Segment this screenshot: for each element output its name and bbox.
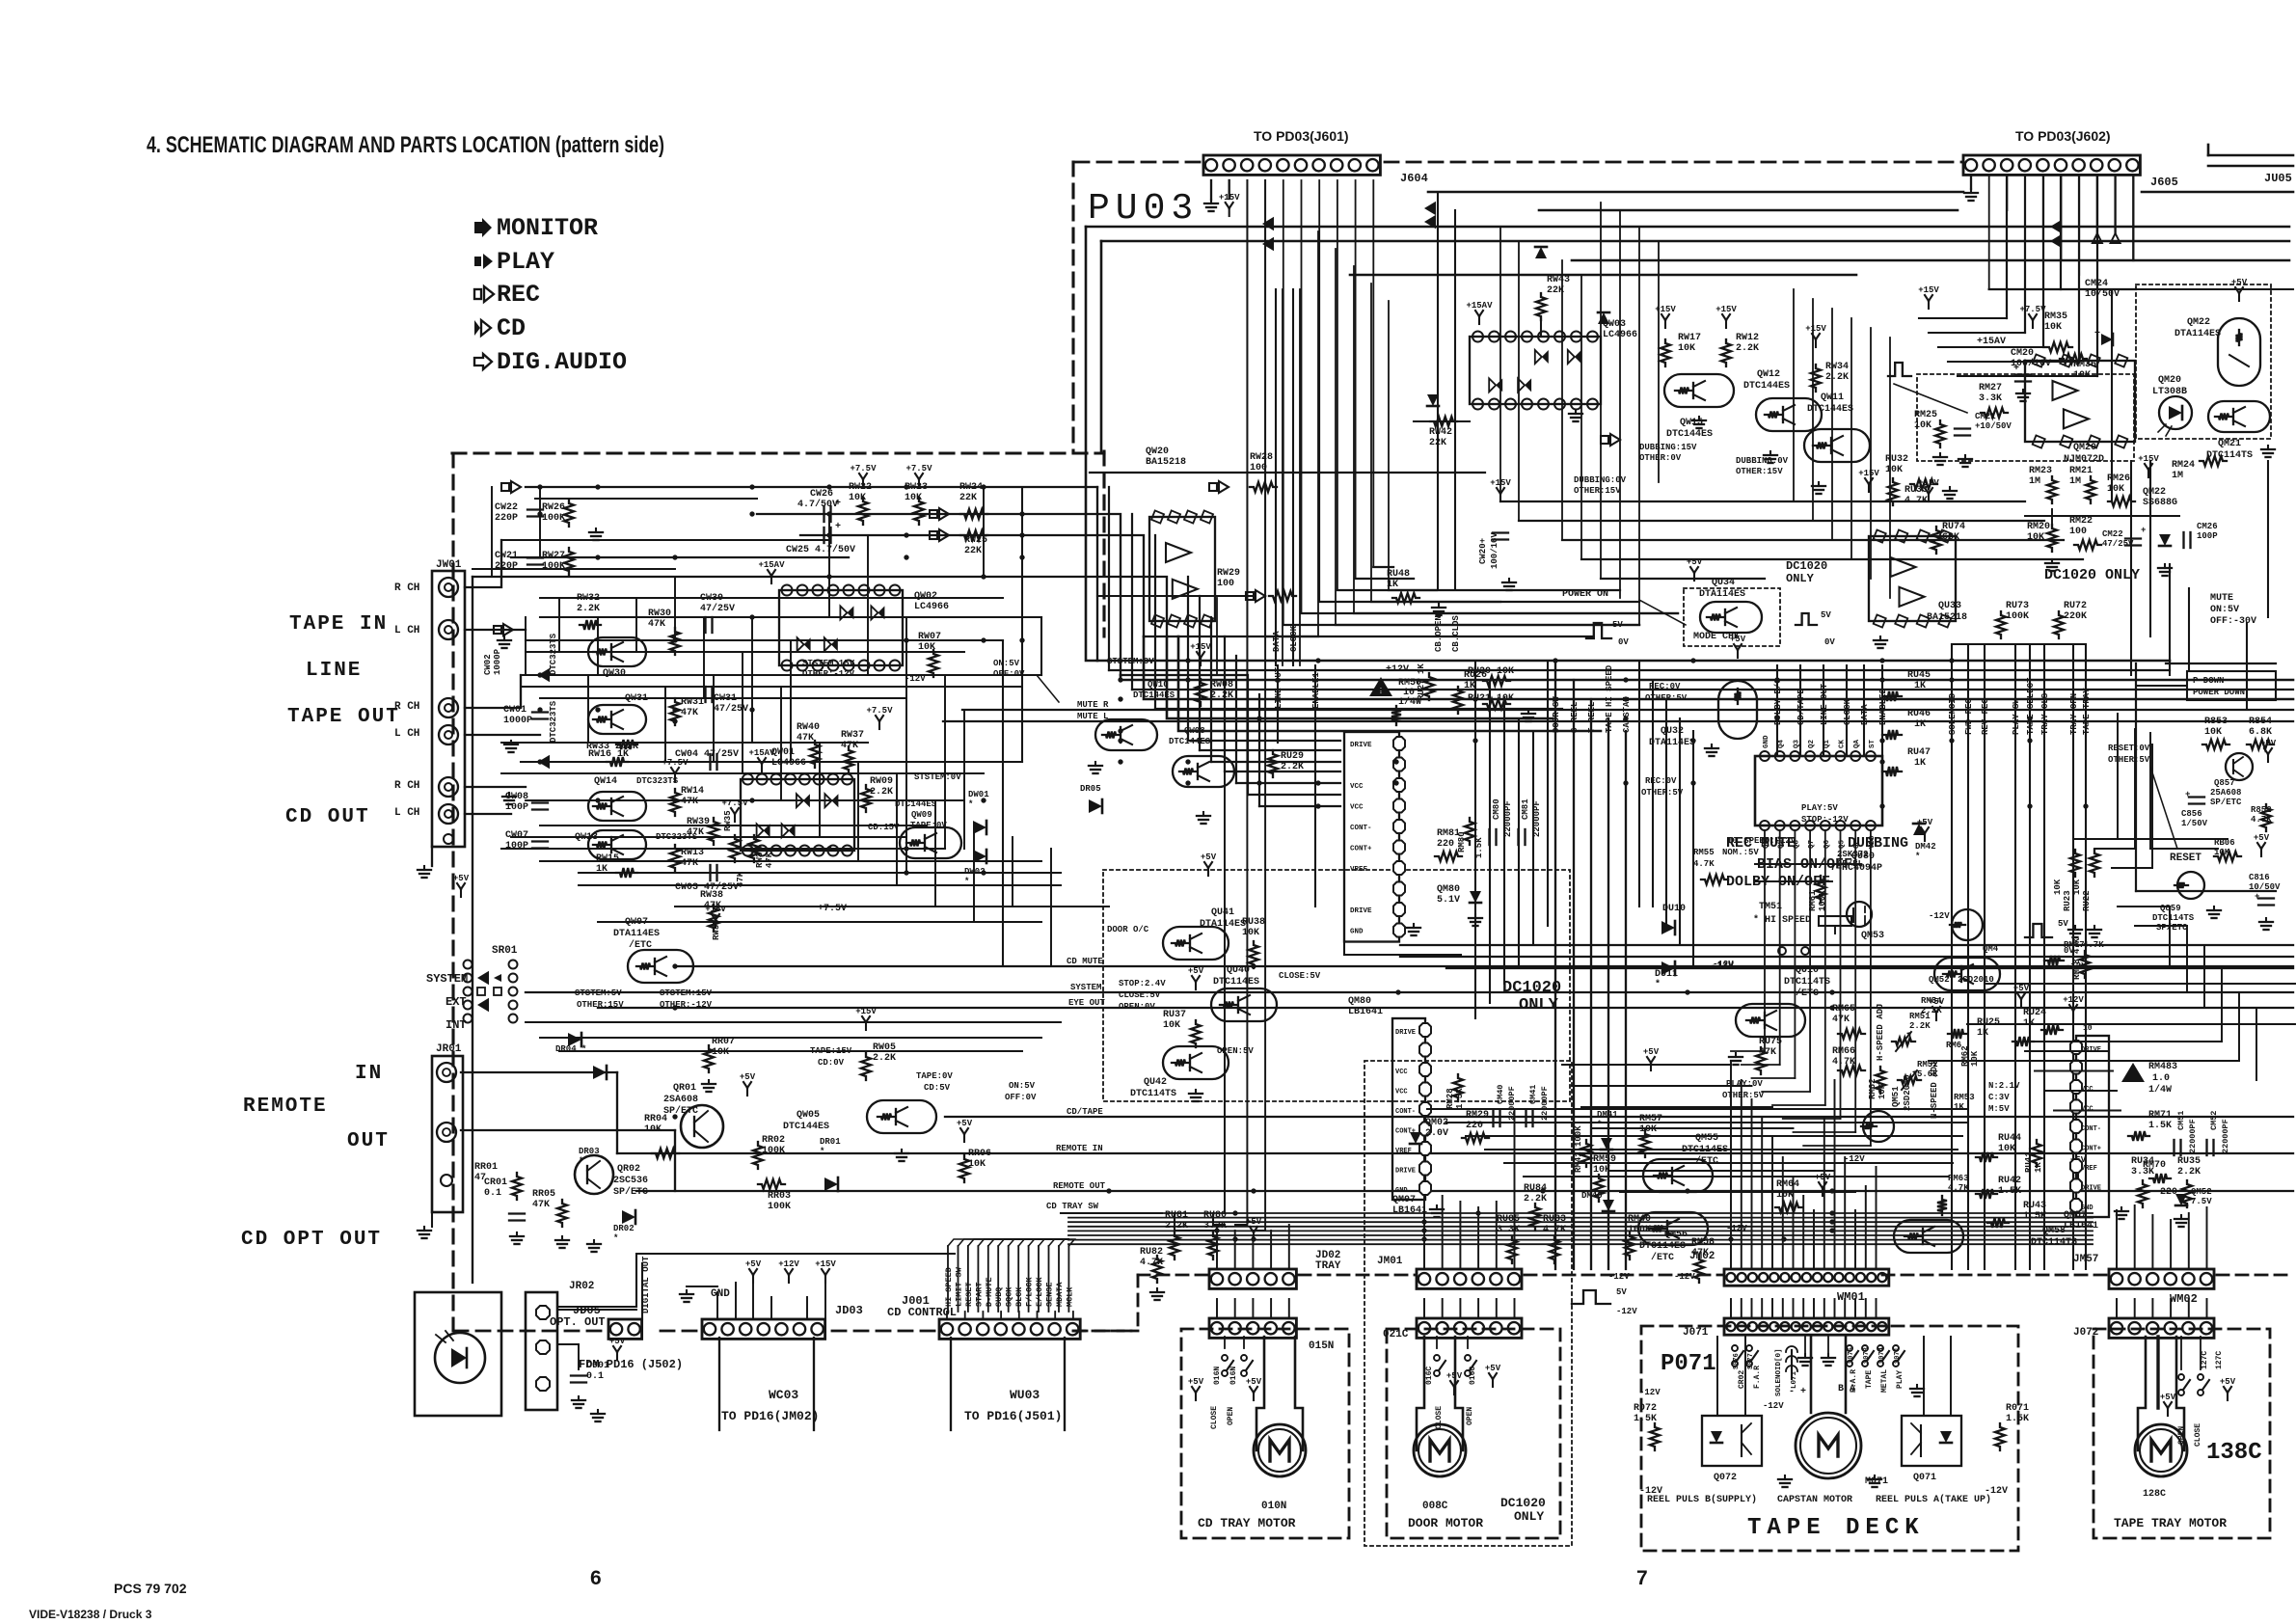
junction dot	[1118, 759, 1122, 764]
wire J071 stub	[1741, 1299, 1742, 1318]
wire bus mid corner	[1258, 694, 1260, 806]
svg-text:22000PF: 22000PF	[2221, 1119, 2230, 1153]
svg-text:TAPE TRAY MOTOR: TAPE TRAY MOTOR	[2114, 1516, 2227, 1530]
fet QM53	[1847, 902, 1872, 927]
junction dot	[1118, 677, 1122, 682]
supply +15AV qw02	[770, 576, 772, 583]
svg-text:DR04 *: DR04 *	[555, 1044, 586, 1054]
resistor RM65	[1838, 1029, 1865, 1039]
svg-text:OTHER:5V: OTHER:5V	[1722, 1091, 1765, 1100]
svg-text:QM52: QM52	[1929, 975, 1950, 985]
supply +15V qw11	[1815, 339, 1817, 347]
wire mid col vert	[1503, 699, 1505, 984]
wire vertical drop	[1216, 598, 1218, 675]
svg-text:SYSTEM: SYSTEM	[426, 972, 468, 986]
resistor R852	[2261, 804, 2271, 831]
svg-text:+15V: +15V	[2138, 454, 2159, 464]
svg-text:DTC144ES: DTC144ES	[1807, 404, 1853, 415]
capacitor CW26	[823, 506, 824, 522]
wire left extra v	[857, 762, 859, 861]
wire net DOLBY B/C vert r	[1776, 665, 1778, 756]
wire J605 deep drop	[2042, 176, 2044, 347]
wire cd-control bus h	[1068, 1234, 2093, 1236]
junction dot	[672, 1114, 677, 1119]
wire J605 pin9 drop tri	[2114, 176, 2116, 233]
wire left vseg	[963, 710, 965, 849]
svg-text:10K: 10K	[849, 493, 866, 503]
resistor RU37	[1191, 1020, 1201, 1047]
junction dot	[1393, 780, 1398, 785]
resistor RW05	[861, 1053, 871, 1080]
wire J071 stub	[1834, 1299, 1836, 1318]
svg-text:10K: 10K	[1639, 1124, 1657, 1135]
svg-text:CONT+: CONT+	[1350, 846, 1372, 853]
wire right h	[1967, 1023, 2295, 1025]
supply +7.5V d	[734, 814, 736, 822]
svg-text:1.5K: 1.5K	[2023, 1211, 2046, 1222]
wire right vert b	[2255, 1008, 2257, 1080]
svg-text:EYE OUT: EYE OUT	[1068, 998, 1105, 1008]
wire 4094 bottom drop	[1854, 830, 1856, 1132]
resistor RM80	[1465, 818, 1474, 845]
junction dot	[1019, 637, 1024, 642]
wire 4094 bottom drop	[1824, 830, 1826, 1105]
junction dot	[672, 963, 677, 968]
svg-text:+15V: +15V	[815, 1259, 836, 1269]
pin 4094 bot 6	[1850, 821, 1860, 830]
svg-text:QM22: QM22	[2143, 487, 2166, 498]
svg-text:QM20: QM20	[2158, 375, 2181, 386]
supply +15V qw10	[1200, 658, 1202, 665]
ground qm21	[2267, 446, 2269, 449]
wire vertical mid	[1850, 318, 1852, 559]
wire J605 turn	[1919, 317, 2007, 319]
wire WM01 riser	[1761, 1119, 1763, 1269]
svg-text:+5V: +5V	[1246, 1377, 1262, 1387]
wire remote v700	[674, 1130, 676, 1191]
wire J072 stub	[2206, 1299, 2208, 1318]
svg-text:CW02: CW02	[483, 654, 493, 675]
svg-text:DM40: DM40	[1581, 1191, 1603, 1201]
dashed bottom chain b	[1299, 1274, 1417, 1277]
svg-text:+: +	[2013, 364, 2019, 374]
arrow mark a	[540, 670, 549, 681]
transistor QM56	[1638, 1212, 1708, 1245]
resistor RW31	[670, 698, 680, 725]
wire J071 stub	[1844, 1299, 1846, 1318]
led QM20 LT308B	[2159, 396, 2192, 429]
dashed bottom chain d	[1882, 1274, 2109, 1277]
svg-text:REV REC: REV REC	[1981, 698, 1990, 735]
IC QM80 LB1641	[1344, 732, 1399, 942]
svg-text:+5V: +5V	[2220, 1377, 2236, 1387]
svg-text:-12V: -12V	[1726, 1224, 1747, 1233]
svg-text:WU03: WU03	[1010, 1388, 1040, 1402]
svg-text:R853: R853	[2204, 717, 2228, 727]
junction dot	[904, 484, 908, 489]
wire J072 stub	[2188, 1299, 2190, 1318]
wire left extra v	[934, 800, 936, 907]
wire left extra h	[511, 836, 906, 838]
wire WM01 riser	[1865, 1186, 1867, 1269]
resistor RR03	[758, 1179, 785, 1189]
supply +5V rm63	[2020, 999, 2022, 1007]
ground qw12	[1769, 451, 1771, 455]
svg-text:+5V: +5V	[1485, 1364, 1501, 1373]
junction dot	[1553, 696, 1557, 701]
svg-text:1K: 1K	[1914, 719, 1926, 730]
wire WM01 riser	[1730, 1061, 1732, 1269]
svg-text:QM53: QM53	[1861, 931, 1884, 941]
resistor RU72	[2054, 611, 2064, 638]
svg-text:10K: 10K	[2044, 322, 2062, 333]
wire JM01 riser	[1477, 1207, 1479, 1269]
transistor QU32v	[1718, 681, 1757, 739]
junction dot	[1781, 1236, 1786, 1241]
pin 4094 bot 2	[1790, 821, 1799, 830]
pin JR02	[536, 1306, 550, 1319]
wire qm57 feed	[2054, 1110, 2120, 1112]
svg-text:-12V: -12V	[1639, 1388, 1661, 1397]
junction dot	[1623, 780, 1628, 785]
capacitor CW21	[527, 556, 543, 558]
wire deck gnd stub	[1804, 1337, 1806, 1354]
svg-text:2.2K: 2.2K	[1524, 1194, 1547, 1204]
supply +5V ru34	[2077, 1171, 2079, 1178]
wire bus mid extra	[1200, 749, 1340, 751]
wire J604 pin9 drop	[1355, 180, 1357, 579]
wire net CLOCK vertical	[1292, 289, 1294, 665]
wire net LINE OUT vert r	[1823, 665, 1824, 756]
svg-text:*: *	[820, 1147, 824, 1156]
wire WM01 riser	[1782, 1157, 1784, 1269]
junction dot	[981, 484, 986, 489]
svg-text:-12V: -12V	[1616, 1307, 1637, 1316]
junction dot	[1251, 963, 1256, 968]
svg-text:1.0: 1.0	[2152, 1073, 2170, 1084]
svg-text:1K: 1K	[2034, 1162, 2043, 1173]
resistor RU24	[2041, 1025, 2063, 1035]
svg-text:10K: 10K	[2053, 879, 2063, 895]
svg-text:100K: 100K	[2006, 611, 2029, 622]
svg-text:OPEN: OPEN	[2177, 1426, 2186, 1445]
wire mid col vert b	[1679, 718, 1681, 945]
junction dot	[1879, 738, 1884, 743]
svg-text:QW30: QW30	[603, 668, 626, 679]
junction dot	[537, 707, 542, 712]
resistor RU85	[1507, 1236, 1517, 1263]
svg-text:CONT-: CONT-	[2081, 1125, 2101, 1133]
wire J605 deep drop	[2078, 176, 2080, 362]
junction dot	[2027, 716, 2032, 720]
svg-text:CM51: CM51	[2176, 1111, 2186, 1130]
svg-text:RR06: RR06	[968, 1149, 991, 1159]
opto-isolator Q071	[1902, 1416, 1961, 1466]
svg-text:J071: J071	[1683, 1327, 1709, 1339]
wire cd-control bend	[959, 1239, 1069, 1246]
waveform qm20	[1888, 363, 1911, 376]
svg-text:4. SCHEMATIC DIAGRAM AND PART: 4. SCHEMATIC DIAGRAM AND PARTS LOCATION …	[147, 132, 664, 158]
svg-text:CD:5V: CD:5V	[924, 1083, 951, 1093]
svg-text:10K: 10K	[905, 493, 922, 503]
wire left v1080	[1040, 617, 1042, 675]
svg-text:ST: ST	[1869, 739, 1877, 748]
svg-text:QM80: QM80	[1348, 996, 1371, 1007]
wire 021C stub	[1442, 1299, 1444, 1318]
svg-text:GND: GND	[1395, 1187, 1408, 1195]
capacitor CM81	[1517, 829, 1519, 845]
transistor QM22v	[2218, 318, 2260, 386]
ground rm20	[2051, 559, 2053, 563]
wire 4094 drop turn	[1783, 1118, 1841, 1120]
resistor RU35	[2182, 1180, 2192, 1207]
pin 4094 top 2	[1790, 751, 1799, 761]
svg-text:RU83: RU83	[1543, 1214, 1566, 1225]
wire J604 drop turn G	[1356, 578, 1414, 580]
diode DM41	[1601, 1138, 1612, 1150]
wire corner left v1	[1086, 227, 1097, 661]
svg-text:VCC: VCC	[2081, 1106, 2093, 1114]
wire right vert	[2130, 461, 2132, 675]
motor CD tray M	[1254, 1424, 1306, 1476]
wire net SYSTEM	[526, 991, 2293, 993]
ground deck1	[1804, 1354, 1806, 1358]
supply +5V qm22	[2238, 293, 2240, 301]
ground jr02	[597, 1410, 599, 1414]
svg-text:QM58: QM58	[2042, 1226, 2066, 1236]
resistor RW12	[1721, 339, 1731, 366]
svg-text:OFF:0V: OFF:0V	[1005, 1093, 1037, 1102]
wire left extra h	[473, 568, 675, 570]
wire left h880	[501, 848, 945, 850]
svg-text:+7.5V: +7.5V	[905, 464, 932, 474]
svg-text:TAPE TRAY: TAPE TRAY	[2082, 688, 2092, 735]
wire J071 stub	[1813, 1299, 1815, 1318]
wire J604 drop turn H	[1373, 566, 1393, 568]
resistor RR04	[652, 1149, 679, 1158]
wire cd-control riser	[958, 1246, 959, 1312]
svg-text:SYSTEM: SYSTEM	[1070, 983, 1101, 992]
svg-text:1.5K: 1.5K	[1634, 1414, 1657, 1424]
svg-text:MUTE: MUTE	[2210, 593, 2233, 604]
svg-text:R071: R071	[2006, 1403, 2029, 1414]
wire J001 pin stub	[1037, 1312, 1039, 1319]
junction dot	[672, 555, 677, 559]
svg-text:3.3K: 3.3K	[1979, 393, 2002, 404]
switch cd close	[1222, 1355, 1228, 1361]
switch TM51	[1819, 916, 1851, 926]
svg-text:L CH: L CH	[394, 625, 419, 636]
svg-text:1000P: 1000P	[493, 648, 502, 675]
transistor QW13	[588, 830, 646, 859]
svg-text:RW37: RW37	[841, 730, 864, 741]
wire cd-control riser	[967, 1246, 969, 1312]
resistor RR06	[959, 1155, 969, 1182]
svg-text:0V: 0V	[2064, 946, 2074, 956]
ground rr07	[708, 1080, 710, 1084]
wire left extra v	[635, 598, 637, 652]
wire J605 turn	[1958, 375, 2097, 377]
svg-text:220P: 220P	[495, 513, 518, 524]
wire WM01 riser	[1793, 1177, 1795, 1269]
svg-text:10K: 10K	[1163, 1020, 1180, 1031]
wire cd-control bend	[998, 1239, 1068, 1246]
svg-text:47/25V: 47/25V	[700, 603, 735, 614]
svg-text:-12V: -12V	[1985, 1486, 2008, 1497]
wire bottom band h	[1446, 1122, 1967, 1123]
wire 4094 drop turn	[1803, 1145, 1871, 1147]
pin 4094 bot 1	[1775, 821, 1785, 830]
resistor RU46	[1882, 730, 1902, 740]
diode arrow rw28	[1209, 483, 1217, 491]
dashed bottom step	[1137, 1275, 1140, 1331]
svg-text:M071: M071	[1865, 1476, 1888, 1487]
supply +12V JD03	[788, 1275, 790, 1283]
svg-text:47K: 47K	[1759, 1047, 1776, 1058]
pin 4094 top 7	[1866, 751, 1876, 761]
svg-text:RM21: RM21	[2069, 466, 2093, 476]
wire JU05 lines	[2208, 154, 2293, 157]
svg-text:+: +	[2255, 892, 2259, 902]
junction dot	[1118, 696, 1122, 701]
diode rm35	[2101, 334, 2113, 345]
svg-text:PLAY: PLAY	[497, 248, 554, 276]
svg-text:TRAY CLS: TRAY CLS	[2040, 692, 2050, 735]
svg-text:R CH: R CH	[394, 780, 419, 792]
wire J071 stub	[1782, 1299, 1784, 1318]
supply +15V ru32	[1868, 484, 1870, 492]
svg-text:+15AV: +15AV	[748, 748, 775, 758]
wire mid col vert	[1474, 661, 1476, 1018]
wire jack line4	[465, 786, 526, 788]
capacitor CM21	[1955, 427, 1970, 429]
wire cd-control bend	[948, 1239, 1068, 1246]
wire net EYE OUT	[598, 1007, 2293, 1009]
wire net CB.OPEN vertical	[1437, 192, 1439, 588]
svg-text:RU47: RU47	[1907, 747, 1931, 758]
wire 4094 drop turn	[1742, 1064, 1780, 1066]
wire left extra h	[598, 921, 1041, 923]
wire qm57 feed	[2025, 1050, 2109, 1052]
junction dot	[1690, 738, 1695, 743]
diode DR01	[824, 1177, 838, 1191]
svg-text:RW16 1K: RW16 1K	[588, 749, 629, 760]
junction dot	[1019, 555, 1024, 559]
svg-text:RW27: RW27	[542, 551, 565, 561]
junction dot	[981, 574, 986, 579]
svg-text:VCC: VCC	[2081, 1086, 2093, 1094]
svg-text:CW22: CW22	[495, 502, 518, 513]
IC QW02 LC4966	[779, 590, 903, 665]
wire vertical mid	[1812, 299, 1814, 521]
resistor RM40	[1625, 1232, 1634, 1259]
wire vertical drop	[1335, 249, 1337, 625]
svg-text:OTHER:5V: OTHER:5V	[2108, 755, 2150, 765]
svg-text:TO PD16(JM02): TO PD16(JM02)	[721, 1409, 819, 1423]
wire vertical mid	[1638, 227, 1640, 625]
svg-text:/ETC: /ETC	[1796, 988, 1819, 999]
junction dot	[2083, 803, 2088, 808]
wire left extra h	[540, 825, 926, 826]
resistor RM62	[1876, 1067, 1885, 1094]
svg-text:ONLY: ONLY	[1519, 996, 1559, 1015]
svg-text:QW09: QW09	[911, 810, 932, 820]
svg-text:SENSE: SENSE	[1045, 1282, 1055, 1307]
svg-text:DC1020: DC1020	[1502, 979, 1561, 997]
wire JM57 riser	[2206, 1207, 2208, 1269]
dashed box PU03 top edge	[1075, 161, 1203, 164]
dashed box TAPE TRAY MOTOR	[2093, 1329, 2270, 1538]
svg-text:BLCK: BLCK	[1014, 1286, 1024, 1307]
svg-text:RU80: RU80	[1203, 1210, 1227, 1221]
transistor QW14	[588, 792, 646, 821]
junction dot	[537, 759, 542, 764]
svg-text:2.2K: 2.2K	[2177, 1167, 2201, 1177]
svg-text:RU44: RU44	[1998, 1133, 2021, 1144]
wire WM01 riser	[1813, 1210, 1815, 1269]
junction dot	[595, 798, 600, 802]
junction dot	[1421, 1236, 1426, 1241]
wire JD02 riser	[1270, 1231, 1272, 1269]
junction dot	[1690, 780, 1695, 785]
supply +5V rr06	[963, 1134, 965, 1142]
svg-text:+5V: +5V	[745, 1259, 762, 1269]
transistor QW05	[867, 1100, 936, 1133]
svg-text:QW05: QW05	[797, 1110, 820, 1121]
junction dot	[1475, 1210, 1480, 1215]
zener QM52z	[2175, 1194, 2187, 1205]
IC QM07 LB1641	[1392, 1018, 1425, 1200]
svg-text:CK: CK	[1839, 739, 1847, 748]
wire vertical mid	[1561, 260, 1563, 540]
wire cd-control riser	[1008, 1246, 1010, 1312]
svg-text:WM01: WM01	[1837, 1290, 1865, 1304]
wire bus mid corner	[1131, 514, 1133, 690]
wire left h555	[800, 535, 1144, 636]
svg-text:Q2: Q2	[1808, 739, 1816, 748]
svg-text:*: *	[1655, 979, 1661, 990]
svg-text:10K: 10K	[644, 1124, 662, 1135]
svg-text:1M: 1M	[2069, 476, 2081, 487]
resistor RW40	[810, 741, 820, 768]
svg-text:DTC114TS: DTC114TS	[2031, 1237, 2077, 1248]
svg-text:RM6: RM6	[1946, 1041, 1961, 1050]
svg-text:016C: 016C	[1469, 1367, 1477, 1385]
warning triangle rm483	[2121, 1063, 2145, 1082]
wire J604 pin6 drop	[1301, 180, 1303, 613]
diode arrow qw03 out	[1601, 436, 1608, 444]
jack JR01 c	[441, 1175, 452, 1186]
svg-text:DM41: DM41	[1597, 1110, 1618, 1120]
svg-text:RW30: RW30	[648, 609, 671, 619]
wire right vert	[2246, 623, 2248, 710]
wire cd-opt h	[557, 1254, 955, 1307]
wire J001 pin stub	[964, 1312, 966, 1319]
wire rw29 line	[1097, 595, 1254, 597]
wire right h	[1986, 983, 2295, 985]
svg-text:RR02: RR02	[762, 1135, 785, 1146]
pin 4094 top 1	[1775, 751, 1785, 761]
svg-text:RM53: RM53	[1954, 1093, 1975, 1102]
wire J605 pin6 drop	[2061, 176, 2063, 260]
svg-text:VCC: VCC	[1350, 783, 1364, 791]
junction dot	[1256, 780, 1261, 785]
svg-text:WM02: WM02	[2170, 1292, 2198, 1306]
wire JM01 riser	[1496, 1202, 1498, 1269]
junction dot	[537, 672, 542, 677]
svg-text:021C: 021C	[1383, 1329, 1409, 1340]
junction dot	[1829, 1005, 1834, 1010]
